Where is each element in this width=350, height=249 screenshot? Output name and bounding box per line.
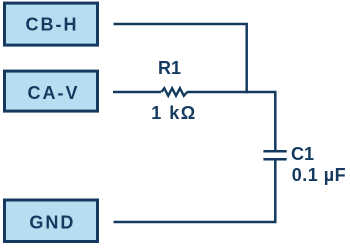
svg-text:1 kΩ: 1 kΩ [151,103,196,123]
svg-text:R1: R1 [158,58,181,78]
svg-text:C1: C1 [291,144,314,164]
wire CB-H to junction node (horizontal then down) [114,24,247,93]
wire capacitor C1 bottom to GND box [114,160,276,222]
node CA-V (terminal box) [5,71,98,111]
node CB-H (terminal box) [5,3,98,45]
capacitor C1 bottom plate [263,158,286,161]
svg-text:0.1 µF: 0.1 µF [292,165,346,185]
wire CA-V to resistor R1 left lead [113,91,161,94]
wire resistor R1 right lead to top of capacitor C1 [187,92,275,150]
svg-text:CA-V: CA-V [28,83,80,103]
svg-text:GND: GND [29,212,75,232]
capacitor C1 top plate [263,150,286,153]
svg-text:CB-H: CB-H [26,15,79,35]
resistor R1 zigzag body [161,88,187,96]
node GND (terminal box) [5,200,98,242]
